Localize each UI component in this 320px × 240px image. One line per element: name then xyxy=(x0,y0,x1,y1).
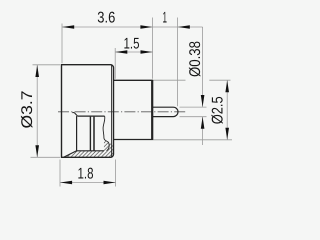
arrow 1.5 left xyxy=(115,50,127,54)
arrow 1.5 right xyxy=(141,50,153,54)
extension line body-left x62 xyxy=(61,24,63,64)
dimension line 1.8 xyxy=(60,182,116,184)
arrow dia2.5 top xyxy=(225,80,229,92)
arrow 3.6 left xyxy=(62,25,74,29)
cavity bottom edge xyxy=(77,150,104,152)
extension lines pin edges xyxy=(180,106,207,108)
mouth chamfer xyxy=(74,113,77,117)
arrow dia3.7 top xyxy=(35,65,39,77)
extension line step-right x152.6 xyxy=(152,18,154,79)
leader dia0.38 upper xyxy=(202,27,204,107)
dimension line dia3.7 xyxy=(36,65,38,158)
dimension line 1.5 xyxy=(115,51,152,53)
extension lines 1.8 xyxy=(59,160,61,187)
svg-text:1: 1 xyxy=(163,10,168,27)
leader dia0.38 lower xyxy=(202,117,204,145)
hatch sliver right of break line xyxy=(104,140,113,151)
dimension line 3.6 and 1 with tail xyxy=(62,26,203,28)
extension lines dia3.7 xyxy=(33,64,61,66)
arrow dia2.5 bottom xyxy=(225,128,229,140)
extension line dia2.5 bottom xyxy=(153,139,232,141)
arrow dia3.7 bottom xyxy=(35,145,39,157)
mouth tick xyxy=(72,112,74,114)
svg-text:Ø3.7: Ø3.7 xyxy=(19,91,36,129)
svg-text:Ø0.38: Ø0.38 xyxy=(187,41,204,77)
dimension line dia2.5 xyxy=(226,80,228,140)
pin xyxy=(153,107,178,116)
arrow 1.8 right xyxy=(104,181,116,185)
cavity left wall xyxy=(76,116,78,151)
extension line dia2.5 top (broken) xyxy=(153,79,186,81)
svg-text:1.8: 1.8 xyxy=(78,166,94,183)
step right edge thick xyxy=(151,80,153,140)
extension line step-left x115.2 xyxy=(114,48,116,79)
arrow dia0.38 lower (up) xyxy=(201,117,205,129)
step outline xyxy=(114,80,153,139)
svg-text:3.6: 3.6 xyxy=(97,10,115,27)
centerline xyxy=(58,111,187,113)
body right edge inner line xyxy=(111,65,113,157)
svg-text:1.5: 1.5 xyxy=(124,36,140,53)
extension line pin-tip x177.6 xyxy=(177,18,179,107)
body outline xyxy=(62,65,114,158)
arrow 1.8 left xyxy=(60,181,72,185)
contact tube walls xyxy=(89,117,91,151)
arrow 3.6 right / 1 left xyxy=(140,25,152,29)
svg-text:Ø2.5: Ø2.5 xyxy=(210,96,227,124)
wavy break line xyxy=(103,116,109,151)
bottom-left chamfer xyxy=(64,151,77,157)
cavity top edge xyxy=(78,115,105,117)
arrow dia0.38 upper (down) xyxy=(201,95,205,107)
hatch band bottom wall xyxy=(64,151,113,157)
arrow 1 right (outside) xyxy=(178,25,190,29)
